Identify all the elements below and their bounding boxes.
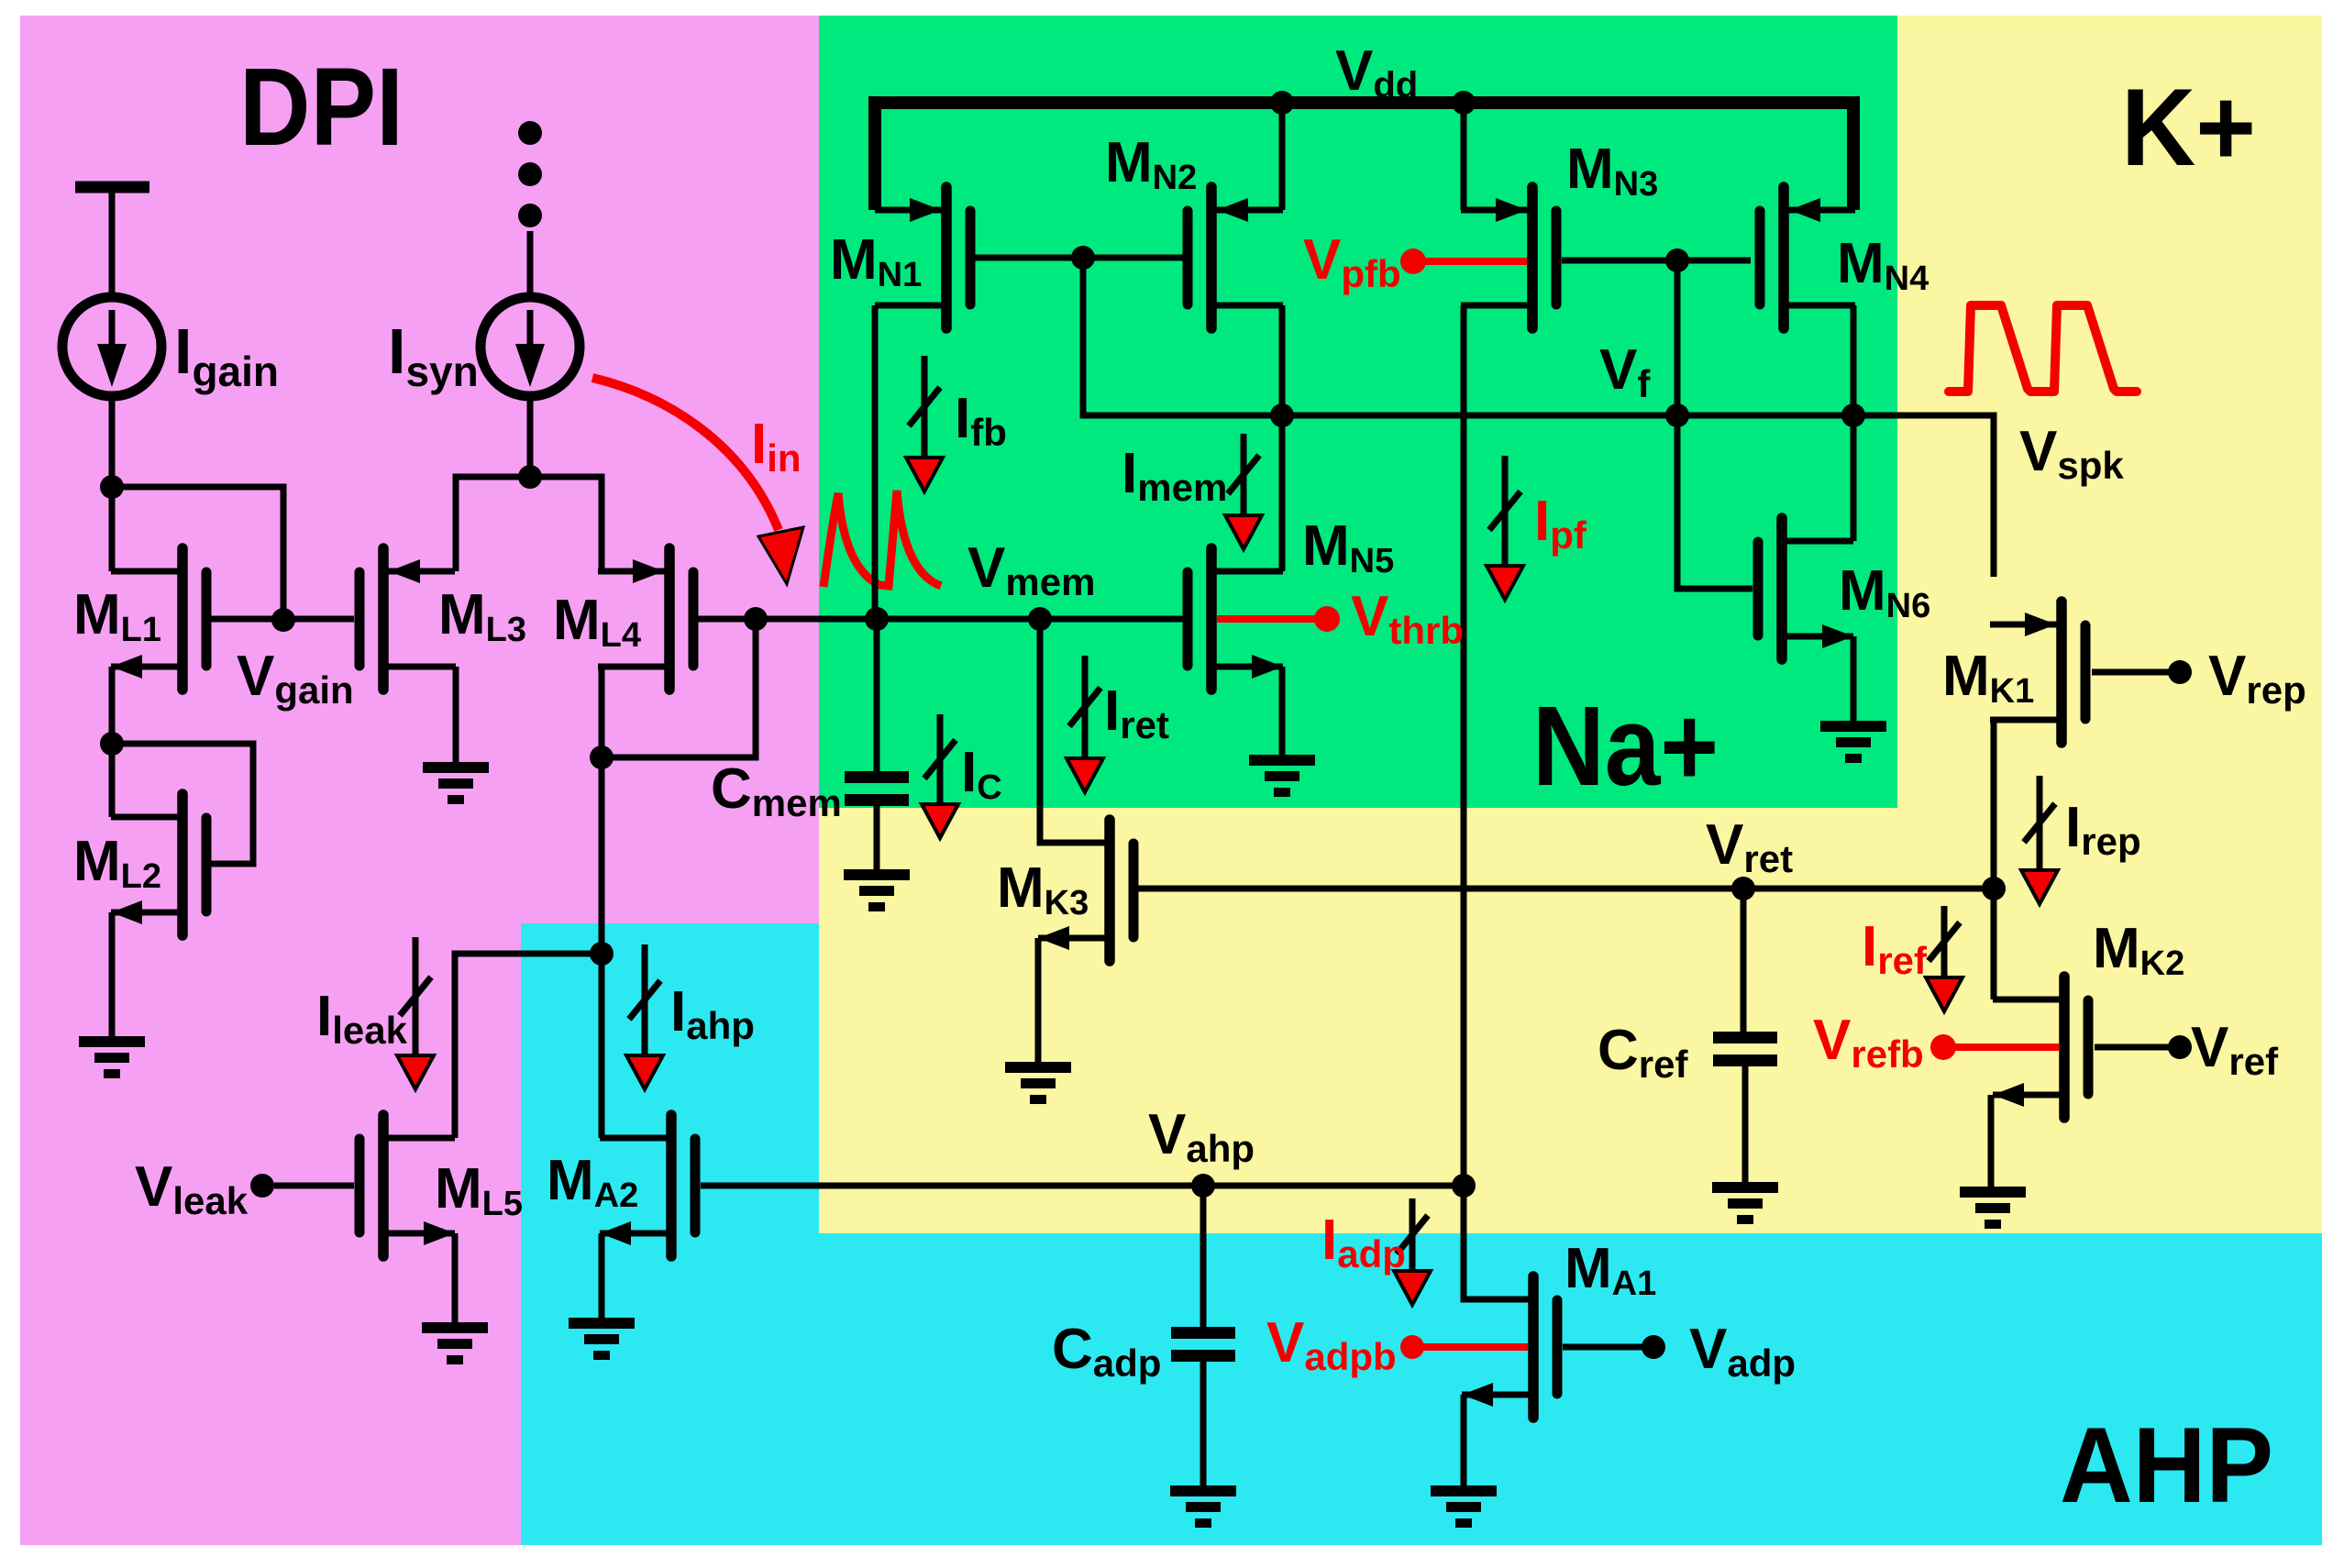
node Vf [1665, 403, 1689, 427]
wire ML4 diode loop [602, 619, 756, 757]
wire dots to Isyn [527, 231, 534, 297]
red EPSP waveform at Vmem [824, 491, 941, 587]
label Isyn [388, 315, 479, 395]
transistor ML5 [359, 1115, 455, 1256]
region DPI (pink) [20, 16, 819, 1545]
terminal Vleak [250, 1174, 274, 1198]
node ML4/ML5/MA2 [590, 942, 614, 966]
label Cmem [711, 757, 842, 824]
wire Vret line [1137, 886, 1994, 892]
red arrow Iin [592, 378, 803, 584]
wire node down to ML1 drain [112, 487, 182, 571]
wire MN2 drain down [1279, 305, 1286, 415]
label ML3 [438, 583, 526, 649]
wire MN2 source up [1279, 103, 1286, 210]
wire MK1 gate [2092, 669, 2171, 676]
transistor ML3 [359, 548, 455, 690]
node Vahp at MA1 column [1452, 1174, 1476, 1198]
current arrow IC [922, 714, 958, 838]
label Ipf [1534, 490, 1587, 557]
wire down to MA1 drain [1464, 1186, 1533, 1299]
label ML4 [553, 589, 641, 655]
red terminal Vpfb [1400, 248, 1426, 274]
label ML2 [73, 830, 161, 896]
label Vadpb [1266, 1311, 1397, 1378]
transistor MA1 [1462, 1276, 1557, 1418]
wire Vmem rail [693, 616, 1183, 623]
label MA1 [1565, 1237, 1656, 1303]
label Iret [1104, 679, 1169, 746]
wire MN4 drain down [1851, 305, 1857, 415]
capacitor Cref [1713, 889, 1777, 1182]
label Iahp [670, 980, 755, 1047]
wire ML4 drain down [599, 667, 605, 1138]
wire ML3 drain to ground [389, 667, 456, 762]
current arrow Ifb [906, 356, 943, 491]
node mirror [1270, 403, 1294, 427]
wire MN5 drain up [1279, 415, 1286, 571]
transistor MK2 [1993, 977, 2088, 1118]
label Vref [2191, 1016, 2279, 1083]
label Cadp [1052, 1318, 1161, 1385]
transistor MN6 [1758, 518, 1853, 659]
wire gates down to Vf [1675, 260, 1681, 415]
ground under MN5 [1249, 755, 1315, 797]
transistor ML2 [111, 794, 206, 935]
current arrow Irep [2021, 776, 2058, 904]
label Iadp [1321, 1209, 1406, 1275]
red terminal Vadpb [1400, 1335, 1424, 1359]
label AHP [2060, 1405, 2273, 1525]
wire MN3/MN4 gate line [1562, 258, 1751, 264]
wire MK2 source to ground [1988, 1095, 1995, 1187]
wire MN6 source to ground [1851, 636, 1857, 721]
terminal Vref [2168, 1035, 2192, 1059]
terminal Vrep [2168, 660, 2192, 684]
red terminal Vthrb [1314, 606, 1340, 632]
node Vret at MK1 [1982, 877, 2006, 900]
svg-text:Na+: Na+ [1532, 684, 1719, 810]
wire node to ML2 drain [112, 744, 182, 817]
wire MN3 source up [1461, 103, 1467, 210]
wire MN5 source to ground [1279, 667, 1286, 755]
label Vrep [2208, 645, 2306, 712]
label Vdd [1335, 39, 1418, 105]
node Vret at Cref [1731, 877, 1755, 900]
wire spike node to MK1 [1853, 415, 1994, 577]
region K+ (yellow) [819, 16, 2322, 1233]
wire ML2 gate loop [112, 744, 253, 864]
current arrow Ileak [397, 937, 434, 1089]
wire Vdd rail [875, 103, 1853, 210]
label MK2 [2093, 917, 2184, 983]
label Vadp [1689, 1318, 1796, 1385]
wire MN6 drain up [1851, 415, 1857, 541]
wire Vgain gate line [211, 616, 354, 623]
red terminal Vrefb [1930, 1034, 1956, 1060]
capacitor Cmem [845, 619, 909, 869]
ground under ML5 [422, 1322, 488, 1364]
ground under MA1 [1431, 1485, 1497, 1528]
label Vmem [967, 536, 1095, 603]
svg-text:AHP: AHP [2060, 1405, 2273, 1525]
label K+ [2121, 66, 2256, 189]
wire Vmem down to MK3 [1040, 619, 1110, 843]
label Na+ [1532, 684, 1719, 810]
node Vmem at Cmem [865, 607, 889, 631]
current source Isyn [481, 297, 580, 396]
label ML1 [73, 583, 161, 649]
label Iin [751, 413, 802, 480]
terminal Vadp [1642, 1335, 1665, 1359]
label Vret [1706, 813, 1793, 880]
label MN6 [1839, 559, 1930, 625]
label Vahp [1148, 1103, 1255, 1170]
label Vpfb [1303, 228, 1401, 295]
transistor MN2 [1188, 187, 1283, 328]
capacitor Cadp [1171, 1186, 1235, 1485]
ground under MA2 [569, 1318, 635, 1360]
label MK1 [1942, 645, 2034, 711]
label DPI [239, 44, 404, 169]
wire node to ML4 source [530, 477, 602, 571]
label Vspk [2019, 420, 2124, 487]
ground under MN6 [1820, 721, 1886, 763]
transistor MN4 [1760, 187, 1855, 328]
svg-text:DPI: DPI [239, 44, 404, 169]
wire ML2 source to ground [109, 912, 116, 1036]
label MN4 [1837, 232, 1929, 298]
red wire Vthrb [1217, 615, 1315, 623]
wire MN6 gate from Vf [1677, 415, 1752, 589]
red spike waveform [1949, 305, 2137, 392]
label Vrefb [1813, 1009, 1924, 1076]
wire MA1 gate [1563, 1344, 1644, 1351]
region Na+ (green) [819, 16, 1897, 808]
wire MK2 gate [2095, 1044, 2171, 1051]
wire ML3 source up [456, 477, 530, 571]
wire MN3 drain long down [1461, 305, 1467, 1299]
wire MA1 source to ground [1461, 1395, 1467, 1485]
node ML4 gate on Vmem [744, 607, 768, 631]
label IC [961, 741, 1002, 807]
current arrow Ipf [1487, 456, 1523, 600]
wire Vahp line [701, 1183, 1464, 1189]
transistor ML1 [111, 548, 206, 690]
ground under ML3 [423, 762, 489, 804]
label MA2 [547, 1149, 638, 1215]
label MN3 [1566, 138, 1658, 204]
dots above Isyn [518, 121, 542, 227]
label Ifb [955, 387, 1007, 454]
wire MA2 source to ground [599, 1233, 605, 1318]
node Vahp at Cadp [1191, 1174, 1215, 1198]
node Igain/ML1 [100, 475, 124, 499]
ground under Cref [1712, 1182, 1778, 1224]
wire ML5 source to ground [452, 1233, 459, 1322]
wire MK3 source to ground [1035, 938, 1042, 1062]
red wire Vpfb [1419, 258, 1527, 265]
current arrow Iref [1926, 906, 1963, 1011]
wire MN2 gate [1083, 255, 1183, 261]
transistor MK1 [1990, 602, 2085, 743]
region AHP (cyan) [521, 923, 2322, 1545]
svg-text:K+: K+ [2121, 66, 2256, 189]
wire Isyn to node [527, 396, 534, 477]
ground under Cmem [844, 869, 910, 911]
label Vf [1599, 338, 1651, 405]
label Iref [1862, 915, 1928, 982]
wire node to Vgain column [112, 487, 283, 620]
wire Vleak to ML5 gate [274, 1183, 354, 1189]
label MN5 [1302, 514, 1394, 580]
label Igain [174, 315, 279, 395]
wire gate node down to mirror line [1083, 258, 1853, 415]
transistor ML4 [598, 548, 693, 690]
label Vleak [135, 1155, 249, 1222]
node spike [1841, 403, 1865, 427]
node MN1/MN2 gates [1071, 246, 1095, 270]
label Vgain [237, 645, 354, 712]
current arrow Iret [1067, 656, 1103, 792]
node Vdd right [1452, 91, 1476, 115]
wire MN1 gate [975, 255, 1083, 261]
wire ML5 drain up [455, 954, 596, 1138]
label Ileak [316, 985, 408, 1052]
label Cref [1598, 1019, 1688, 1086]
terminal bar above Igain [75, 182, 149, 297]
transistor MN5 [1188, 548, 1283, 690]
node Isyn [518, 465, 542, 489]
label Vthrb [1351, 585, 1464, 652]
node ML4 loop [590, 745, 614, 769]
transistor MN3 [1461, 187, 1556, 328]
node Vgain [271, 608, 295, 632]
label Imem [1122, 442, 1227, 509]
transistor MN1 [875, 187, 970, 328]
node Vdd left [1270, 91, 1294, 115]
current arrow Imem [1225, 434, 1262, 549]
label Irep [2065, 796, 2141, 863]
wire MN1 drain down to Vmem [872, 305, 879, 619]
transistor MA2 [600, 1115, 695, 1256]
label MN1 [830, 228, 922, 294]
ground under MK2 [1960, 1187, 2026, 1229]
current arrow Iahp [626, 944, 663, 1089]
current arrow Iadp [1394, 1198, 1431, 1305]
ground under Cadp [1170, 1485, 1236, 1528]
label MK3 [997, 856, 1089, 922]
wire ML1 source down [109, 667, 116, 744]
label MN2 [1105, 131, 1197, 197]
node Vmem at MK3 [1028, 607, 1052, 631]
node ML1/ML2 [100, 732, 124, 756]
transistor MK3 [1038, 820, 1133, 961]
red wire Vadpb [1412, 1343, 1528, 1351]
ground under ML2 [79, 1036, 145, 1078]
red wire Vrefb [1943, 1043, 2059, 1051]
wire MK1 drain down [1991, 720, 1997, 999]
current source Igain [62, 297, 161, 396]
wire Igain to node [109, 396, 116, 487]
ground under MK3 [1005, 1062, 1071, 1104]
label ML5 [435, 1157, 523, 1223]
node MN3/MN4 gates [1665, 248, 1689, 272]
